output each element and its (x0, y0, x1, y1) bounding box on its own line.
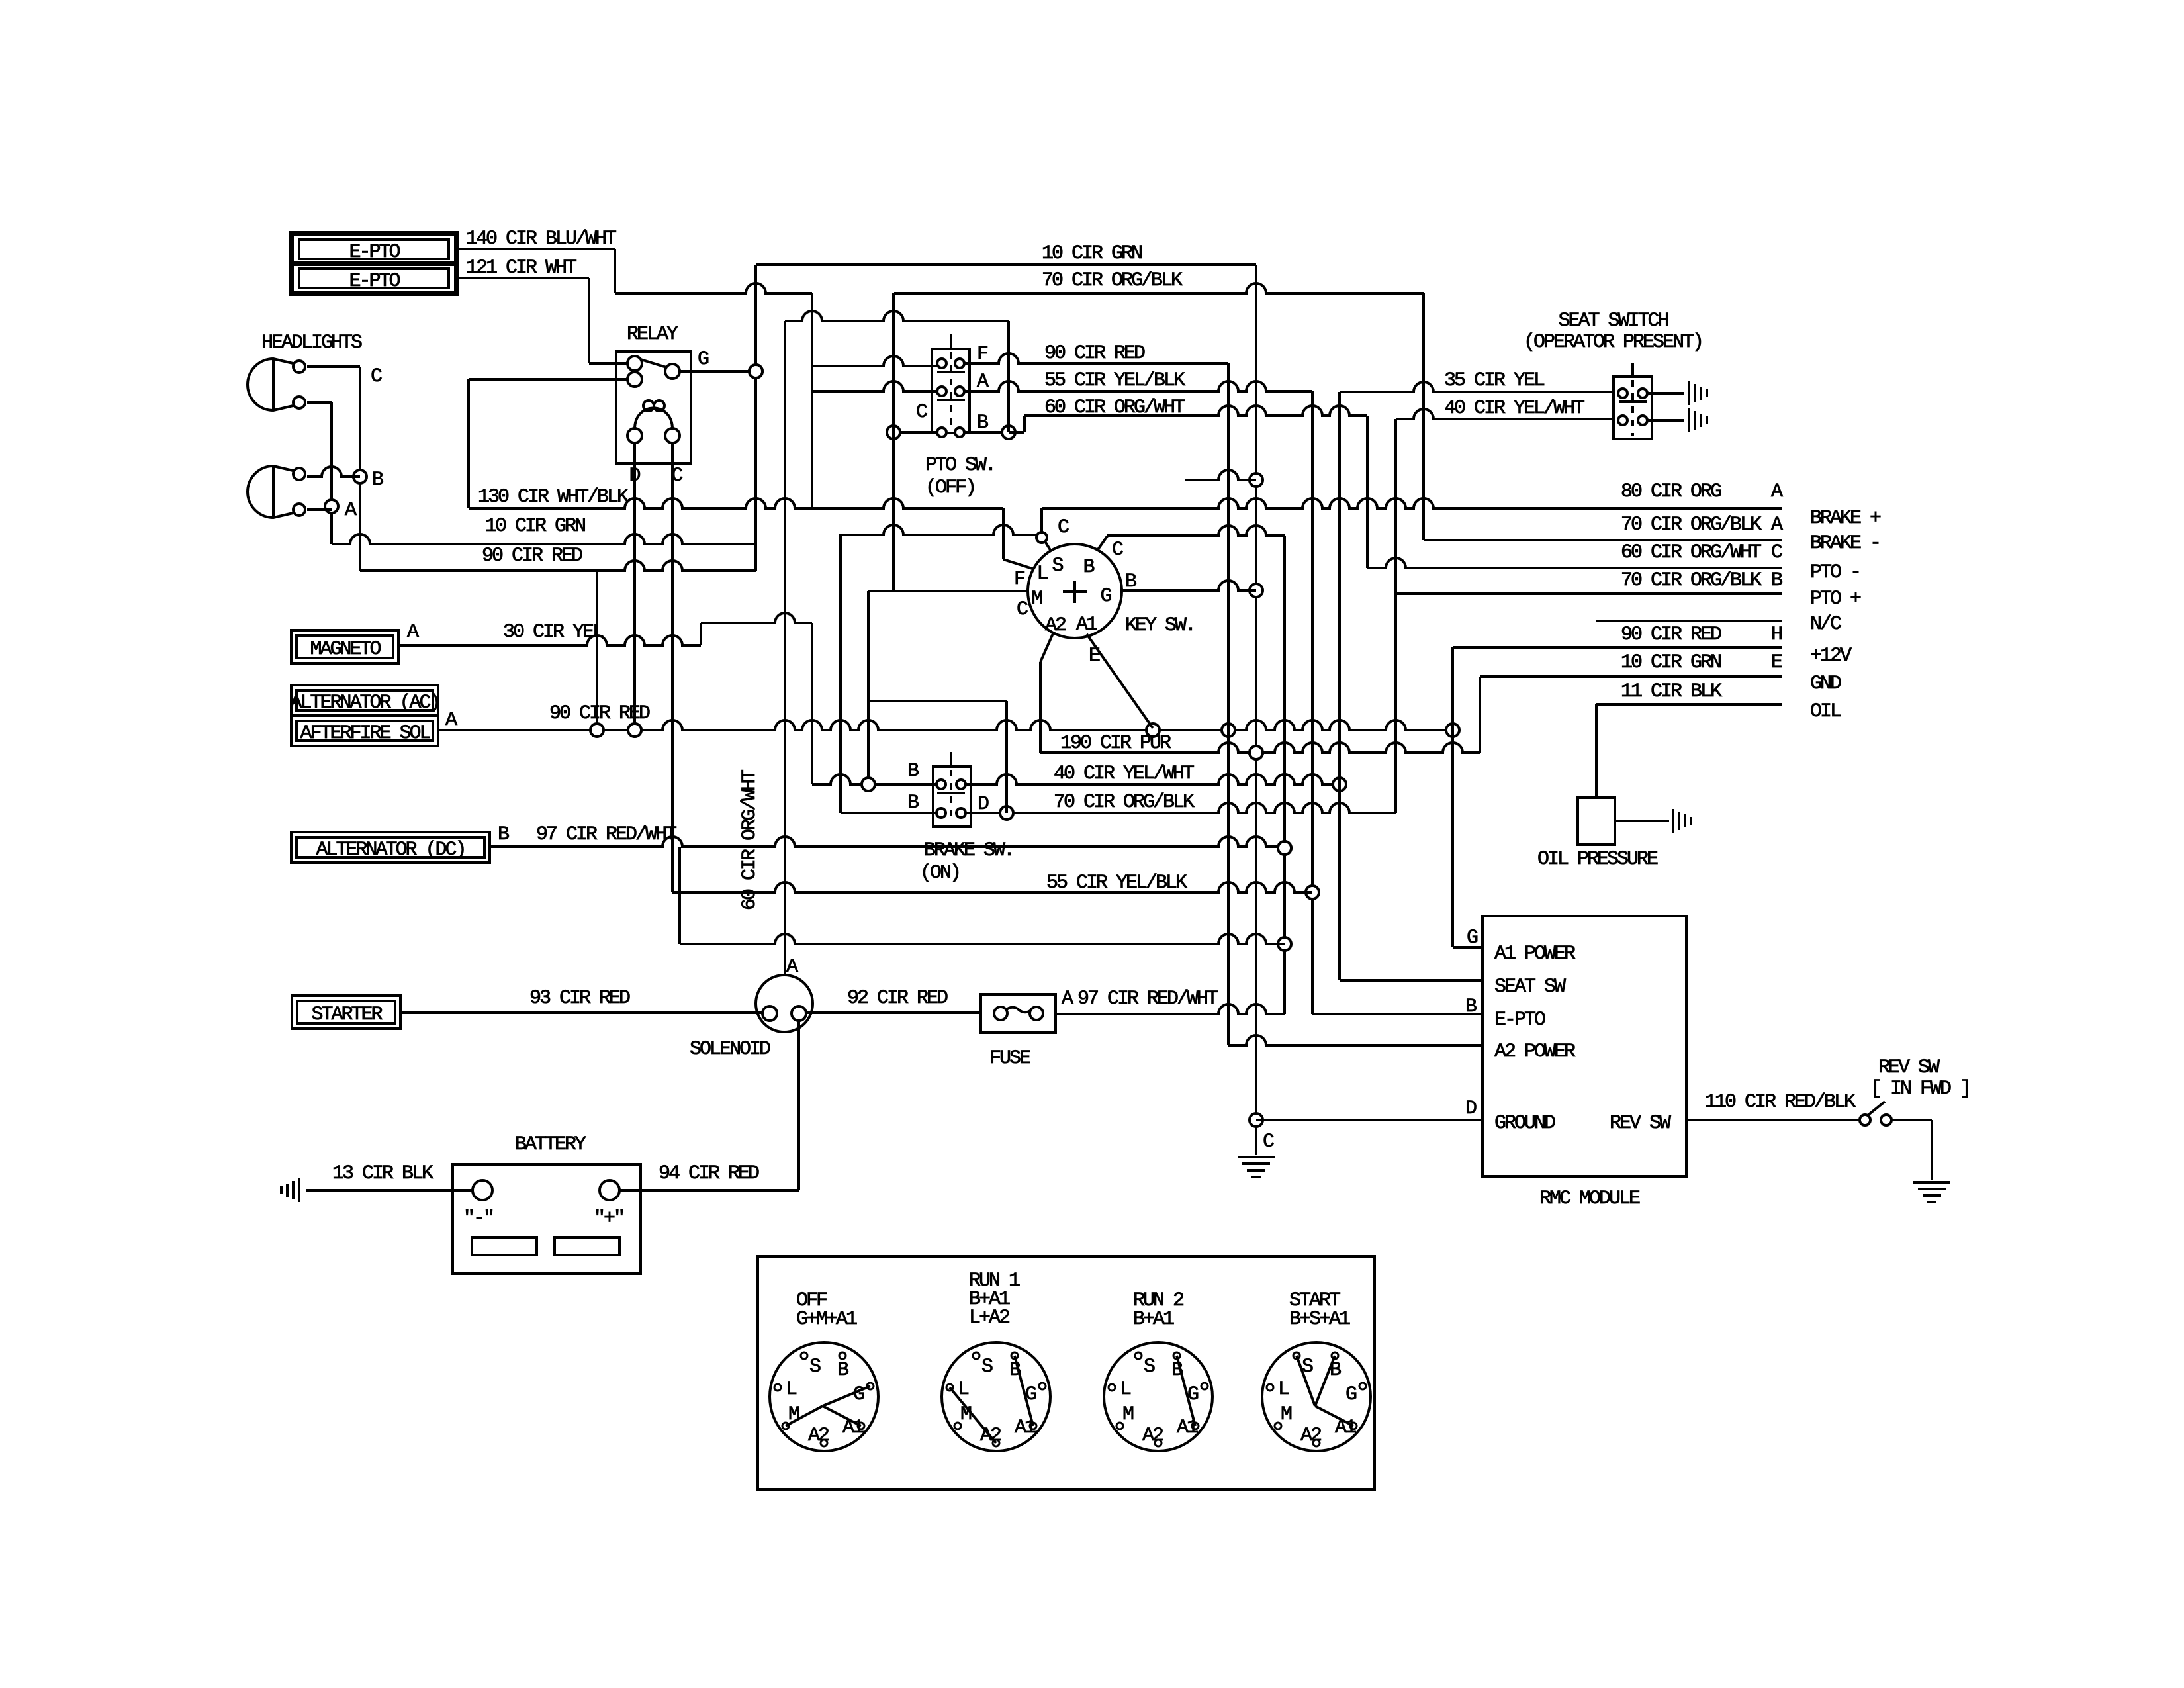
svg-text:A1 POWER: A1 POWER (1494, 943, 1576, 965)
wire A vertical (325, 402, 338, 544)
label RMC MODULE (1539, 1188, 1640, 1210)
wire vertical bus 1270 (839, 534, 842, 813)
label pin E (1771, 651, 1782, 674)
svg-text:190 CIR PUR: 190 CIR PUR (1060, 732, 1171, 755)
svg-text:B: B (977, 412, 988, 434)
svg-text:M: M (1031, 588, 1042, 610)
label PTO OFF (925, 477, 975, 499)
svg-text:D: D (1465, 1098, 1477, 1120)
label 130 CIR WHT/BLK (478, 486, 629, 508)
label fuse A (1062, 988, 1073, 1010)
svg-text:G: G (698, 348, 709, 371)
label PTO - (1810, 561, 1860, 584)
wire 140 CIR BLU/WHT vertical (614, 249, 616, 293)
wire vertical bus 1983 (1306, 391, 1319, 1014)
wire 10 CIR GRN GND (1480, 675, 1782, 678)
label key C1 (1058, 516, 1069, 539)
wire 11 CIR BLK OIL (1596, 703, 1782, 706)
wire headlight1 bottom (307, 401, 332, 404)
svg-text:ALTERNATOR (AC): ALTERNATOR (AC) (290, 692, 439, 714)
wire 190 to GND pin vertical (1479, 677, 1481, 753)
svg-text:E-PTO: E-PTO (349, 241, 400, 263)
svg-text:B: B (372, 469, 383, 491)
svg-text:E: E (1771, 651, 1782, 674)
svg-text:F: F (1014, 568, 1024, 590)
wire vertical 1521 (1005, 701, 1008, 813)
svg-text:90 CIR RED: 90 CIR RED (1044, 342, 1145, 365)
label brake B2 (907, 792, 919, 814)
svg-text:S: S (981, 1356, 993, 1378)
wire A1 POWER (1453, 946, 1482, 949)
wire 60 CIR ORG/WHT PTO- (1367, 558, 1782, 568)
wire key C to bus (1107, 526, 1285, 536)
ground battery (281, 1178, 299, 1202)
wire 140 CIR BLU/WHT horizontal (457, 248, 615, 250)
wire rev sw ground vertical (1931, 1120, 1933, 1180)
label altdc B (498, 823, 509, 846)
svg-text:E-PTO: E-PTO (349, 270, 400, 293)
svg-text:C: C (916, 401, 927, 424)
svg-text:FUSE: FUSE (989, 1047, 1030, 1070)
wire 70 CIR ORG/BLK left segment (615, 283, 812, 293)
wire 130 loop vertical (467, 379, 470, 508)
seat switch terminals (1618, 389, 1647, 425)
label key B out (1125, 571, 1136, 593)
label key C3 (1017, 598, 1028, 621)
svg-text:60 CIR ORG/WHT: 60 CIR ORG/WHT (739, 770, 761, 910)
wire 90 CIR RED from PTO F (964, 353, 1228, 363)
svg-text:OIL PRESSURE: OIL PRESSURE (1537, 848, 1658, 870)
wire 92 CIR RED (807, 1011, 981, 1014)
svg-text:94 CIR RED: 94 CIR RED (659, 1162, 759, 1185)
svg-text:B: B (907, 760, 919, 782)
label 92 CIR RED (847, 987, 948, 1009)
label magneto A (407, 621, 419, 643)
wire headlight2 top to B junction (307, 467, 360, 477)
label SEAT SWITCH (1558, 310, 1668, 332)
wire 121 CIR WHT to relay contact (589, 362, 628, 365)
ground center (1238, 1157, 1275, 1177)
label 80 CIR ORG (1621, 481, 1721, 503)
wire 60 jog vertical (1023, 416, 1026, 432)
svg-text:B: B (498, 823, 509, 846)
wire vertical bus 1186 to solenoid (784, 321, 786, 975)
wire 60 jog a (1009, 431, 1024, 434)
key position RUN 1 (942, 1270, 1050, 1451)
label PTO F (977, 343, 987, 365)
label 140 CIR BLU/WHT (466, 228, 616, 250)
label 60 CIR ORG/WHT pto (1044, 397, 1185, 419)
svg-text:MAGNETO: MAGNETO (310, 638, 381, 661)
label PTO SW. (925, 454, 995, 477)
wire 97 CIR RED/WHT from fuse (1056, 1004, 1285, 1014)
svg-text:11 CIR BLK: 11 CIR BLK (1621, 680, 1722, 703)
rev switch (1860, 1102, 1891, 1125)
svg-text:E-PTO: E-PTO (1494, 1009, 1545, 1031)
label 110 CIR RED/BLK (1705, 1091, 1856, 1113)
wire key M (868, 590, 1028, 592)
wire A2 POWER pin (1228, 1035, 1482, 1045)
svg-text:G: G (853, 1383, 864, 1406)
wire vertical bus 2109 (1394, 419, 1397, 813)
label SOLENOID (690, 1038, 770, 1060)
svg-text:80 CIR ORG: 80 CIR ORG (1621, 481, 1721, 503)
svg-text:A2: A2 (1045, 614, 1066, 637)
wire 10 CIR GRN top (756, 263, 1256, 266)
wire 11 CIR BLK vertical (1595, 704, 1598, 798)
label KEY SW. (1125, 614, 1195, 637)
label 90 CIR RED pto (1044, 342, 1145, 365)
svg-text:A2: A2 (1300, 1425, 1321, 1447)
wire 121 CIR WHT horizontal (457, 277, 589, 279)
MAGNETO box (291, 630, 398, 663)
svg-text:(OPERATOR PRESENT): (OPERATOR PRESENT) (1524, 331, 1702, 353)
svg-text:OIL: OIL (1810, 700, 1841, 723)
label brake D (978, 793, 989, 816)
label 40 CIR YEL/WHT seat (1444, 397, 1584, 420)
svg-text:ALTERNATOR (DC): ALTERNATOR (DC) (316, 839, 465, 861)
label battery minus (463, 1207, 493, 1230)
wire 93 CIR RED (400, 1011, 762, 1014)
svg-text:C: C (371, 365, 382, 388)
label GROUND (1494, 1112, 1555, 1135)
svg-text:C: C (1112, 539, 1123, 561)
svg-text:G+M+A1: G+M+A1 (796, 1308, 857, 1331)
label pin B r (1771, 569, 1782, 592)
wire 70 CIR ORG/BLK A vertical (1422, 293, 1425, 540)
key position OFF (770, 1289, 878, 1451)
wire stub 902 (596, 571, 598, 730)
svg-text:A1: A1 (1076, 614, 1097, 636)
label rmc D (1465, 1098, 1477, 1120)
svg-text:SEAT SWITCH: SEAT SWITCH (1558, 310, 1668, 332)
wire rev sw to ground (1891, 1119, 1932, 1121)
wire 60 vertical right (1366, 416, 1369, 568)
label 55 CIR YEL/BLK center (1046, 872, 1187, 894)
svg-text:B+S+A1: B+S+A1 (1289, 1308, 1350, 1331)
svg-text:130 CIR WHT/BLK: 130 CIR WHT/BLK (478, 486, 629, 508)
label A node (345, 499, 357, 522)
label pin C r (1771, 541, 1782, 564)
svg-text:M: M (1122, 1403, 1134, 1426)
svg-text:92 CIR RED: 92 CIR RED (847, 987, 948, 1009)
svg-text:B+A1: B+A1 (1133, 1308, 1174, 1331)
svg-text:B: B (837, 1359, 848, 1382)
label 10 CIR GRN top (1042, 242, 1142, 265)
wire N/C (1596, 620, 1782, 622)
wire vertical bus 1227 lower (811, 623, 813, 784)
svg-text:B: B (1083, 556, 1094, 579)
svg-text:10 CIR GRN: 10 CIR GRN (485, 515, 585, 538)
svg-text:10 CIR GRN: 10 CIR GRN (1042, 242, 1142, 265)
label 10 CIR GRN left (485, 515, 585, 538)
label key E (1089, 645, 1100, 667)
wire 55 CIR YEL/BLK from PTO A (964, 381, 1312, 391)
AFTERFIRE SOL box (291, 716, 438, 746)
svg-text:A2: A2 (808, 1425, 829, 1447)
svg-text:M: M (1281, 1403, 1292, 1426)
label afterfire A (445, 709, 457, 731)
svg-text:SEAT SW: SEAT SW (1494, 976, 1566, 998)
wire 70 CIR ORG/BLK right segment (894, 283, 1424, 293)
key F lead vertical (1003, 508, 1032, 569)
wire 60 connector horizontal (785, 311, 1009, 321)
wire 30 CIR YEL lower (398, 635, 701, 645)
label BRAKE ON (920, 862, 960, 884)
label relay C (671, 465, 682, 487)
svg-text:PTO -: PTO - (1810, 561, 1860, 584)
label key A1 in (1076, 614, 1097, 636)
wire headlight2 bottom to A junction (307, 508, 332, 511)
svg-text:A1: A1 (842, 1417, 864, 1439)
label 40 CIR YEL/WHT center (1054, 763, 1194, 785)
label BATTERY (515, 1133, 586, 1156)
ground rev sw (1913, 1182, 1950, 1202)
svg-text:BRAKE SW.: BRAKE SW. (924, 839, 1013, 862)
svg-text:G: G (1345, 1383, 1357, 1406)
key C terminal dot (1036, 532, 1050, 550)
label battery plus (594, 1207, 623, 1230)
wire key G to bus (1122, 581, 1256, 590)
wire 110 CIR RED/BLK (1686, 1119, 1860, 1121)
label 90 CIR RED right (1621, 624, 1721, 646)
wire SEAT SW pin (1340, 979, 1482, 982)
svg-text:BATTERY: BATTERY (515, 1133, 586, 1156)
wire horizontal 1059 (868, 700, 1007, 702)
seat switch box (1614, 363, 1652, 439)
wire C vertical (353, 367, 367, 571)
wire vertical 1524 (1007, 321, 1010, 432)
svg-text:L: L (1036, 563, 1048, 585)
wire 40 CIR YEL/WHT seat (1396, 409, 1614, 419)
wire 121 CIR WHT vertical (588, 278, 590, 363)
svg-text:A2 POWER: A2 POWER (1494, 1041, 1576, 1063)
label N/C (1810, 613, 1841, 635)
label C node (371, 365, 382, 388)
svg-text:B: B (907, 792, 919, 814)
svg-text:PTO SW.: PTO SW. (925, 454, 995, 477)
wire 90 CIR RED +12V (1453, 646, 1782, 649)
ground oil pressure (1673, 809, 1691, 833)
label pin H (1771, 624, 1782, 646)
label 60 CIR ORG/WHT right (1621, 541, 1761, 564)
legend box (758, 1256, 1375, 1489)
wire 97 CIR RED/WHT from ALT DC (490, 837, 1291, 855)
wire vertical bus 1941 (1278, 536, 1291, 1014)
svg-text:GROUND: GROUND (1494, 1112, 1555, 1135)
wire to key C dot (841, 525, 1036, 535)
relay switch contacts (627, 356, 680, 387)
wire 70 CIR ORG/BLK run (966, 803, 1396, 820)
label key S (1052, 555, 1063, 577)
label 190 CIR PUR (1060, 732, 1171, 755)
label 11 CIR BLK (1621, 680, 1722, 703)
svg-text:REV SW: REV SW (1610, 1112, 1671, 1135)
wire seat switch gnd2 (1647, 419, 1684, 422)
svg-text:B: B (1771, 569, 1782, 592)
key position START (1262, 1289, 1371, 1451)
svg-text:L: L (1120, 1378, 1131, 1401)
wire 94 CIR RED (619, 1189, 799, 1192)
svg-text:A2: A2 (1142, 1425, 1163, 1447)
label REV SW pin (1610, 1112, 1671, 1135)
label PTO C (916, 401, 927, 424)
RMC module box (1482, 916, 1686, 1176)
battery box (453, 1164, 641, 1274)
wire relay C down to 55 run (671, 442, 674, 892)
label OIL PRESSURE (1537, 848, 1658, 870)
wire vertical bus 1227 upper (811, 293, 813, 508)
label rmc B (1465, 996, 1477, 1018)
label 70 CIR ORG/BLK center (1054, 791, 1195, 814)
key C2 lead (1098, 536, 1107, 549)
label B node (372, 469, 383, 491)
svg-text:70 CIR ORG/BLK: 70 CIR ORG/BLK (1054, 791, 1195, 814)
wire seat switch gnd1 (1647, 392, 1684, 395)
wire 70 CIR ORG/BLK PTO+ (1396, 592, 1782, 595)
wire to PTO A left (812, 381, 937, 391)
svg-text:93 CIR RED: 93 CIR RED (529, 987, 630, 1009)
wire vertical bus 1898 ground (1250, 265, 1263, 1155)
headlight 1 (248, 359, 305, 410)
wire 90 CIR RED headlights (360, 561, 756, 571)
label relay D (629, 465, 640, 487)
wire stub 725 (1185, 470, 1256, 480)
svg-text:C: C (1058, 516, 1069, 539)
label RELAY (627, 323, 678, 346)
label key A2 in (1045, 614, 1066, 637)
label FUSE (989, 1047, 1030, 1070)
label BRAKE SW. (924, 839, 1013, 862)
svg-text:F: F (977, 343, 987, 365)
wire solenoid to battery vertical (797, 1021, 800, 1190)
label 30 CIR YEL (503, 621, 604, 643)
wire oil pressure gnd (1615, 820, 1669, 822)
svg-text:RELAY: RELAY (627, 323, 678, 346)
svg-text:STARTER: STARTER (311, 1004, 383, 1026)
wire 55 CIR YEL/BLK run (672, 882, 1312, 892)
wire relay D down (628, 442, 641, 737)
PTO switch terminals (937, 359, 964, 437)
svg-text:RMC MODULE: RMC MODULE (1539, 1188, 1640, 1210)
svg-text:REV SW: REV SW (1878, 1056, 1940, 1079)
label 70 CIR ORG/BLK right B (1621, 569, 1762, 592)
svg-text:"-": "-" (463, 1207, 493, 1230)
svg-text:40 CIR YEL/WHT: 40 CIR YEL/WHT (1444, 397, 1584, 420)
svg-text:N/C: N/C (1810, 613, 1841, 635)
label key M (1031, 588, 1042, 610)
wire E-PTO pin (1312, 1013, 1482, 1015)
wire 80 CIR ORG BRAKE+ (1042, 498, 1782, 508)
label 10 CIR GRN right (1621, 651, 1721, 674)
key position RUN 2 (1104, 1289, 1212, 1451)
svg-text:PTO +: PTO + (1810, 588, 1861, 610)
wire 13 CIR BLK (306, 1189, 473, 1192)
label 55 CIR YEL/BLK pto (1044, 369, 1185, 392)
svg-text:70 CIR ORG/BLK: 70 CIR ORG/BLK (1042, 269, 1183, 292)
wire 60 CIR ORG/WHT run (1024, 406, 1367, 416)
label relay G (698, 348, 709, 371)
label 35 CIR YEL (1444, 369, 1545, 392)
brake switch box (933, 752, 971, 827)
svg-text:KEY SW.: KEY SW. (1125, 614, 1195, 637)
headlight 2 (248, 466, 305, 518)
wire 70 CIR ORG/BLK BRAKE- (1424, 539, 1782, 541)
label BRAKE + (1810, 507, 1881, 530)
wire 190 CIR PUR (1040, 743, 1480, 759)
wire vertical bus 2024 (1338, 392, 1341, 980)
wire 130 CIR WHT/BLK run to key F (469, 498, 1003, 508)
svg-text:[ IN FWD ]: [ IN FWD ] (1870, 1078, 1970, 1100)
svg-text:AFTERFIRE SOL: AFTERFIRE SOL (300, 722, 430, 745)
svg-text:70 CIR ORG/BLK: 70 CIR ORG/BLK (1621, 514, 1762, 536)
svg-text:97 CIR RED/WHT: 97 CIR RED/WHT (1077, 988, 1218, 1010)
label 94 CIR RED (659, 1162, 759, 1185)
svg-text:G: G (1100, 585, 1111, 608)
svg-text:E: E (1089, 645, 1100, 667)
solenoid (756, 975, 813, 1032)
label 60 CIR ORG/WHT vertical (739, 770, 761, 910)
label rmc G (1467, 927, 1478, 949)
label A2 POWER (1494, 1041, 1576, 1063)
svg-text:C: C (1771, 541, 1782, 564)
ground seat switch 1 (1689, 381, 1707, 405)
label A1 POWER (1494, 943, 1576, 965)
label key G in (1100, 585, 1111, 608)
svg-text:L+A2: L+A2 (969, 1307, 1009, 1329)
wire 97 vertical to A2 run (678, 847, 681, 944)
svg-text:G: G (1467, 927, 1478, 949)
label 97 CIR RED/WHT fuse (1077, 988, 1218, 1010)
key E lead (1087, 634, 1153, 728)
svg-text:GND: GND (1810, 673, 1841, 695)
wire 40 CIR YEL/WHT run (966, 774, 1346, 791)
svg-text:C: C (1017, 598, 1028, 621)
label key B in (1083, 556, 1094, 579)
label key F (1014, 568, 1024, 590)
svg-text:+12V: +12V (1810, 645, 1852, 667)
label OIL (1810, 700, 1841, 723)
wire relay G to junction (680, 365, 762, 378)
wire vertical bus 2195 (1451, 647, 1454, 947)
fuse (981, 994, 1056, 1033)
svg-text:13 CIR BLK: 13 CIR BLK (332, 1162, 433, 1185)
label PTO A (977, 371, 989, 393)
label brake B1 (907, 760, 919, 782)
key switch circle (1028, 544, 1122, 638)
svg-text:90 CIR RED: 90 CIR RED (1621, 624, 1721, 646)
PTO switch box (932, 334, 970, 433)
svg-text:90 CIR RED: 90 CIR RED (482, 545, 582, 567)
label key C2 (1112, 539, 1123, 561)
STARTER box (292, 996, 400, 1029)
wire A2 power run (680, 934, 1285, 944)
label 80 CIR ORG A (1771, 481, 1783, 503)
relay coil (627, 400, 680, 443)
svg-text:10 CIR GRN: 10 CIR GRN (1621, 651, 1721, 674)
svg-text:H: H (1771, 624, 1782, 646)
svg-text:BRAKE +: BRAKE + (1810, 507, 1881, 530)
wire brake bottom left (841, 812, 936, 814)
ALTERNATOR DC box (291, 832, 490, 863)
svg-text:L: L (1278, 1378, 1289, 1401)
label PTO B (977, 412, 988, 434)
E-PTO connector 1 (291, 234, 457, 293)
wire vertical bus 1312 (867, 591, 870, 784)
label 121 CIR WHT (466, 257, 576, 279)
label pin A2r (1771, 514, 1783, 536)
wire key A2 down (1039, 662, 1042, 753)
